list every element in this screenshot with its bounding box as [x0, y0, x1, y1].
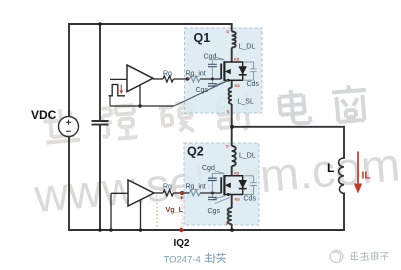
svg-text:Cgs: Cgs	[208, 208, 221, 215]
svg-text:Cgd: Cgd	[204, 54, 217, 61]
svg-text:IQ2: IQ2	[174, 238, 191, 249]
svg-text:Q2: Q2	[187, 145, 204, 159]
svg-text:Vg_L: Vg_L	[166, 205, 184, 214]
svg-text:KD: KD	[234, 172, 240, 176]
svg-text:Cgd: Cgd	[202, 165, 215, 172]
svg-text:IL: IL	[362, 170, 372, 182]
svg-text:L_DL: L_DL	[239, 153, 256, 160]
svg-text:Cgs: Cgs	[196, 87, 209, 94]
svg-text:Cds: Cds	[244, 196, 257, 203]
svg-text:Rg_int: Rg_int	[186, 71, 206, 78]
svg-text:Rg: Rg	[163, 71, 172, 78]
svg-text:L_DL: L_DL	[239, 44, 256, 51]
svg-text:VDC: VDC	[31, 108, 57, 122]
svg-text:TO247-4: TO247-4	[164, 255, 201, 266]
svg-text:KS: KS	[235, 84, 241, 88]
svg-text:D: D	[226, 144, 229, 148]
svg-text:Cds: Cds	[247, 81, 260, 88]
svg-text:KD: KD	[234, 58, 240, 62]
svg-text:Q1: Q1	[194, 31, 211, 45]
svg-text:D: D	[227, 30, 230, 34]
svg-text:Rg_int: Rg_int	[186, 184, 206, 191]
svg-text:Rg: Rg	[163, 184, 172, 191]
svg-text:L: L	[327, 161, 334, 175]
svg-text:KS: KS	[235, 197, 241, 201]
svg-text:L_SL: L_SL	[238, 99, 254, 106]
